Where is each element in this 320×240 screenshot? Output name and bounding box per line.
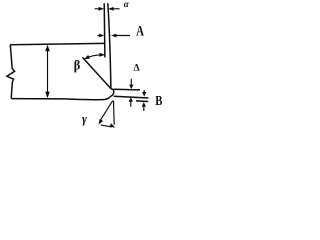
svg-text:B: B <box>155 93 162 108</box>
alpha dimension right arrow shaft <box>111 8 119 10</box>
thickness arrow top head <box>45 45 50 52</box>
plate left edge with break symbol <box>7 45 15 99</box>
bevel face diagonal <box>83 57 111 88</box>
extension line L3 (lower B line) <box>136 100 148 103</box>
gamma ray arrowhead <box>98 119 103 125</box>
gamma slant ray <box>101 101 113 120</box>
delta up arrow shaft <box>130 99 132 106</box>
A dimension left arrow shaft <box>97 35 101 37</box>
alpha dimension left arrow shaft <box>95 8 102 10</box>
delta up arrowhead <box>129 97 133 102</box>
A right arrowhead <box>111 34 116 38</box>
vertical line V2 (right face line) <box>108 3 111 88</box>
beta arc left arrowhead <box>84 55 90 59</box>
vertical line V1 (left face line) <box>103 3 106 57</box>
B up arrowhead <box>142 102 146 107</box>
gamma angle arc <box>101 125 112 127</box>
beta arc right arrowhead <box>99 53 105 57</box>
thickness dimension arrow shaft <box>47 47 49 97</box>
extension line L2 (bottom edge extension) <box>114 96 149 98</box>
svg-text:Δ: Δ <box>134 63 140 74</box>
B down arrowhead <box>142 92 146 97</box>
A dimension right arrow shaft <box>114 35 130 37</box>
B up arrow shaft <box>143 104 145 111</box>
svg-text:A: A <box>136 23 144 39</box>
B down arrow shaft <box>143 90 145 94</box>
svg-text:β: β <box>74 57 81 73</box>
extension line L1 (root top) <box>113 88 140 91</box>
alpha left arrowhead <box>99 7 104 11</box>
thickness arrow bottom head <box>45 92 50 99</box>
gamma vertical ray <box>113 101 116 125</box>
delta down arrowhead <box>129 85 133 90</box>
plate top edge <box>10 43 104 44</box>
beta angle arc <box>84 55 105 59</box>
delta down arrow shaft <box>130 79 132 87</box>
A left arrowhead <box>99 34 104 38</box>
gamma arc arrowhead <box>109 123 115 127</box>
root nose curve <box>110 89 114 97</box>
alpha right arrowhead <box>108 7 113 11</box>
plate bottom edge <box>11 97 110 100</box>
